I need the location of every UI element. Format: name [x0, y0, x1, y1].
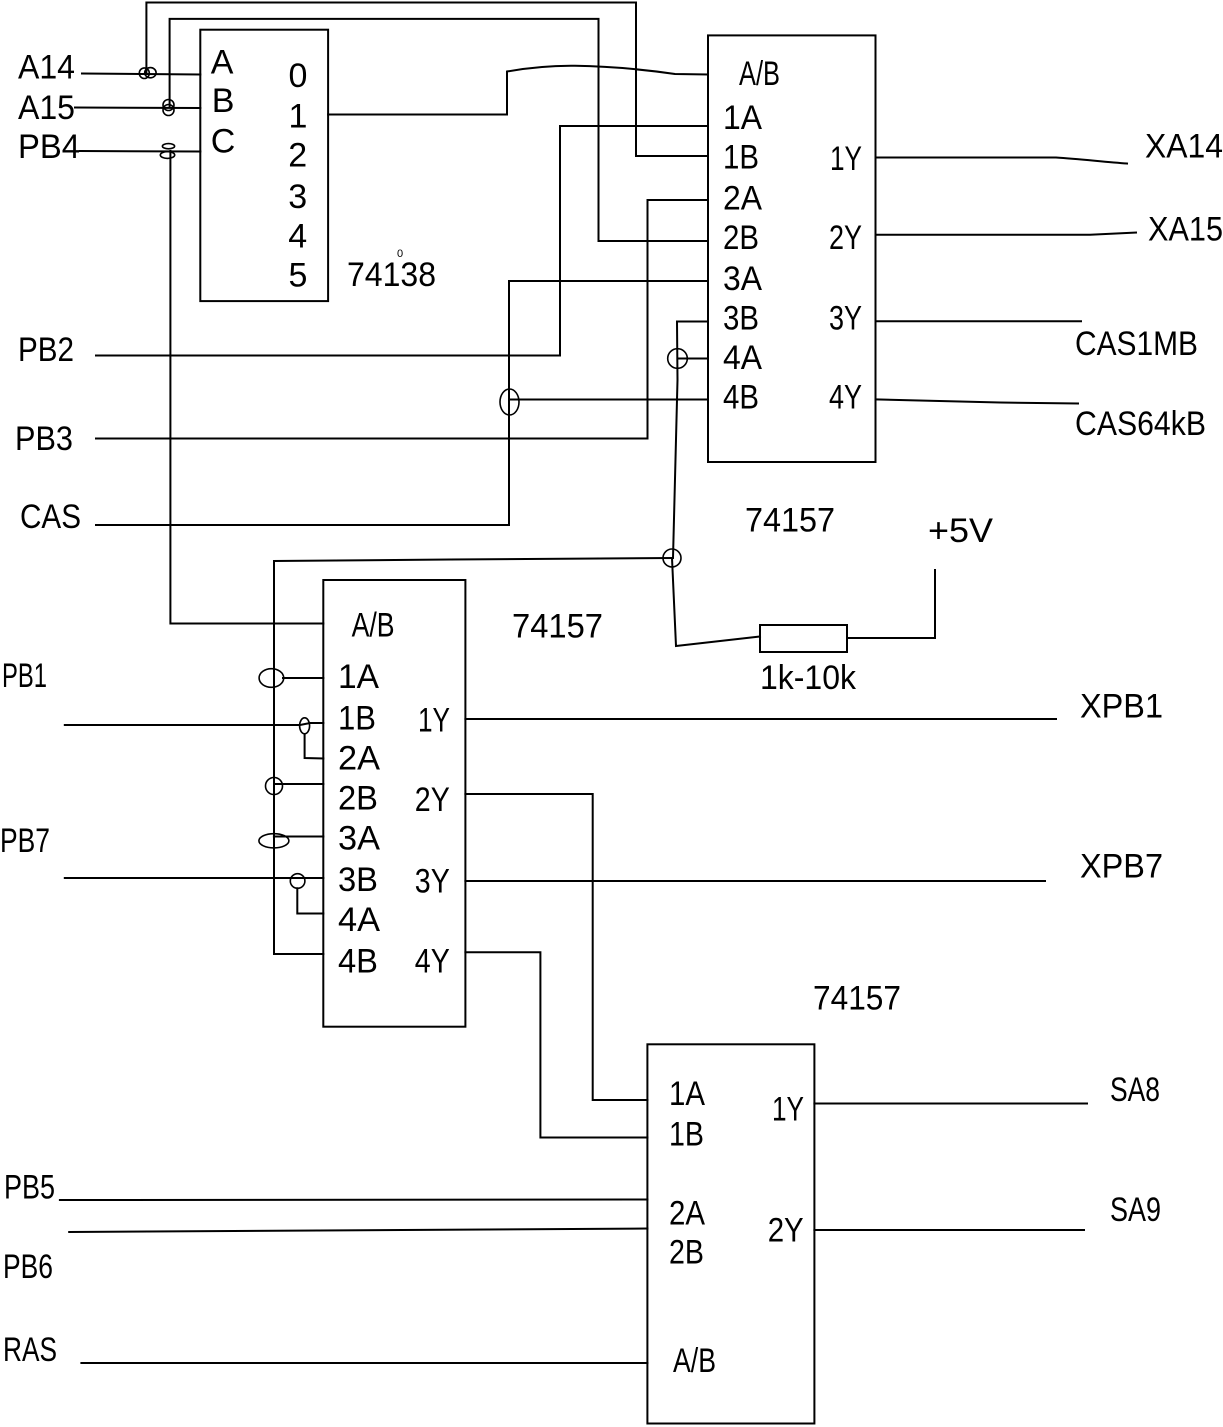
wire A15 branch up over to U2 pin 2B — [170, 19, 708, 241]
svg-text:XA14: XA14 — [1145, 128, 1223, 166]
svg-text:2B: 2B — [723, 219, 759, 257]
junction rail 1A — [259, 669, 284, 688]
wire A15 to U1 pin B — [75, 107, 200, 110]
wire CAS to U2 pin 3A — [96, 281, 708, 525]
svg-text:1Y: 1Y — [418, 701, 450, 739]
svg-text:3Y: 3Y — [829, 300, 862, 338]
svg-text:XA15: XA15 — [1148, 211, 1223, 249]
junction A15 — [163, 100, 174, 116]
svg-text:2Y: 2Y — [768, 1211, 804, 1249]
wire U3 pin 2B from rail — [274, 783, 323, 785]
resistor R1 1k-10k body — [760, 625, 847, 652]
svg-text:2B: 2B — [338, 780, 378, 818]
svg-text:PB5: PB5 — [4, 1169, 55, 1207]
svg-text:4B: 4B — [338, 943, 378, 981]
svg-text:2A: 2A — [723, 180, 762, 218]
decoder U1 74138 body — [200, 30, 328, 301]
mux U4 74157 bottom body — [647, 1044, 814, 1423]
svg-text:1A: 1A — [669, 1075, 705, 1113]
svg-text:XPB7: XPB7 — [1080, 848, 1163, 886]
wire U3 2Y to U4 pin 1A — [465, 794, 647, 1100]
junction CAS/4B node — [500, 389, 519, 415]
wire U3 left rail vertical to pin 4B — [274, 561, 323, 954]
svg-text:SA8: SA8 — [1110, 1071, 1160, 1109]
svg-text:1B: 1B — [669, 1115, 704, 1153]
wire U3 4Y to U4 pin 1B — [465, 952, 647, 1137]
svg-text:CAS64kB: CAS64kB — [1075, 405, 1206, 443]
svg-text:4Y: 4Y — [829, 378, 862, 416]
wire RAS to U4 pin A/B — [81, 1362, 647, 1364]
junction PB4 — [160, 144, 174, 159]
junction PB7/4A node — [290, 874, 305, 889]
wire A14 to U1 pin A — [82, 74, 200, 75]
wire U3 3Y to XPB7 — [465, 880, 1045, 882]
svg-text:3B: 3B — [338, 861, 378, 899]
svg-text:1A: 1A — [723, 99, 762, 137]
wire pullup node down to resistor R1 — [672, 558, 760, 646]
wire PB1 to U3 pin 1B — [65, 723, 324, 725]
wire U2 2Y to XA15 — [876, 233, 1137, 235]
wire U2 3Y to CAS1MB — [876, 320, 1082, 322]
wire U2 pin 4A branch — [678, 358, 709, 360]
wire PB1 branch to U3 pin 2A — [305, 734, 324, 759]
wire R1 to +5V — [847, 570, 935, 638]
wire U1 output 1 to U2 pin A/B — [328, 66, 708, 115]
svg-text:4Y: 4Y — [415, 943, 450, 981]
wire PB7 to U3 pin 3B — [65, 877, 324, 879]
svg-text:4A: 4A — [338, 901, 380, 939]
svg-text:CAS: CAS — [20, 498, 81, 536]
junction A14 — [139, 68, 156, 79]
svg-text:1B: 1B — [338, 700, 376, 738]
svg-text:1A: 1A — [338, 658, 379, 696]
svg-text:A15: A15 — [18, 89, 75, 127]
svg-text:74157: 74157 — [813, 980, 901, 1018]
junction rail 2B — [266, 778, 283, 795]
svg-text:RAS: RAS — [3, 1331, 57, 1369]
junction +5V pullup node — [663, 549, 681, 567]
svg-text:2A: 2A — [338, 740, 380, 778]
wire PB4 branch down to U3 pin A/B — [170, 151, 323, 624]
svg-text:SA9: SA9 — [1110, 1191, 1161, 1229]
svg-text:3A: 3A — [338, 819, 380, 857]
wire U3 1Y to XPB1 — [465, 718, 1056, 720]
svg-text:PB2: PB2 — [18, 331, 74, 369]
svg-text:1B: 1B — [723, 139, 759, 177]
svg-text:PB1: PB1 — [2, 657, 47, 695]
svg-text:A: A — [211, 44, 234, 82]
wire U2 pin 3B to pullup vertical — [677, 321, 708, 323]
wire U4 1Y to SA8 — [814, 1103, 1087, 1105]
svg-text:3: 3 — [288, 178, 307, 216]
wire U2 1Y to XA14 — [876, 158, 1128, 164]
wire PB6 to U4 pin 2B — [69, 1229, 647, 1233]
svg-text:A/B: A/B — [673, 1342, 716, 1380]
svg-text:4A: 4A — [723, 339, 762, 377]
mux U2 74157 top body — [708, 35, 876, 462]
wire PB5 to U4 pin 2A — [60, 1199, 648, 1202]
svg-text:1k-10k: 1k-10k — [760, 659, 857, 697]
wire PB7 branch to U3 pin 4A — [297, 888, 323, 913]
svg-text:A14: A14 — [18, 49, 75, 87]
wire pullup vertical 3B to +5V node — [673, 322, 678, 559]
junction PB1/2A node — [300, 718, 310, 734]
svg-text:2Y: 2Y — [829, 219, 862, 257]
svg-text:1Y: 1Y — [830, 140, 862, 178]
svg-text:74157: 74157 — [745, 502, 835, 540]
wire CAS branch to U2 pin 4B — [509, 399, 708, 401]
svg-text:CAS1MB: CAS1MB — [1075, 325, 1198, 363]
svg-text:4: 4 — [288, 217, 307, 255]
svg-text:74157: 74157 — [512, 608, 603, 646]
svg-text:0: 0 — [289, 57, 308, 95]
svg-text:74138: 74138 — [347, 256, 436, 294]
svg-text:XPB1: XPB1 — [1080, 688, 1163, 726]
svg-text:B: B — [212, 82, 235, 120]
svg-text:PB6: PB6 — [3, 1248, 53, 1286]
svg-text:3B: 3B — [723, 300, 759, 338]
svg-text:PB4: PB4 — [18, 128, 80, 166]
svg-text:3A: 3A — [723, 260, 762, 298]
wire A14 branch up over to U2 pin 1B — [146, 3, 708, 157]
wire PB3 to U2 pin 2A — [96, 200, 708, 439]
svg-text:4B: 4B — [723, 378, 759, 416]
wire PB2 to U2 pin 1A — [96, 126, 708, 356]
mux U3 74157 middle body — [323, 580, 465, 1027]
svg-text:+5V: +5V — [928, 512, 993, 550]
svg-text:A/B: A/B — [739, 55, 780, 93]
wire U3 pin 1A from rail — [283, 677, 323, 679]
svg-text:A/B: A/B — [352, 607, 395, 645]
wire PB4 to U1 pin C — [80, 150, 200, 153]
wire pullup node to U3 left rail — [274, 558, 672, 561]
svg-text:3Y: 3Y — [415, 863, 450, 901]
wire U3 pin 3A from rail — [274, 836, 323, 838]
svg-text:2Y: 2Y — [415, 781, 450, 819]
svg-text:2A: 2A — [669, 1195, 705, 1233]
svg-text:0: 0 — [397, 248, 403, 260]
junction 4A node — [668, 349, 688, 369]
svg-text:1: 1 — [289, 98, 308, 136]
junction rail 3A — [259, 834, 289, 848]
svg-text:2: 2 — [288, 137, 307, 175]
svg-text:2B: 2B — [669, 1234, 704, 1272]
svg-text:1Y: 1Y — [772, 1090, 804, 1128]
svg-text:PB3: PB3 — [15, 420, 73, 458]
svg-text:PB7: PB7 — [0, 822, 50, 860]
svg-text:C: C — [211, 122, 236, 160]
wire U2 4Y to CAS64kB — [876, 399, 1079, 403]
svg-text:5: 5 — [289, 257, 308, 295]
wire U4 2Y to SA9 — [814, 1229, 1084, 1231]
